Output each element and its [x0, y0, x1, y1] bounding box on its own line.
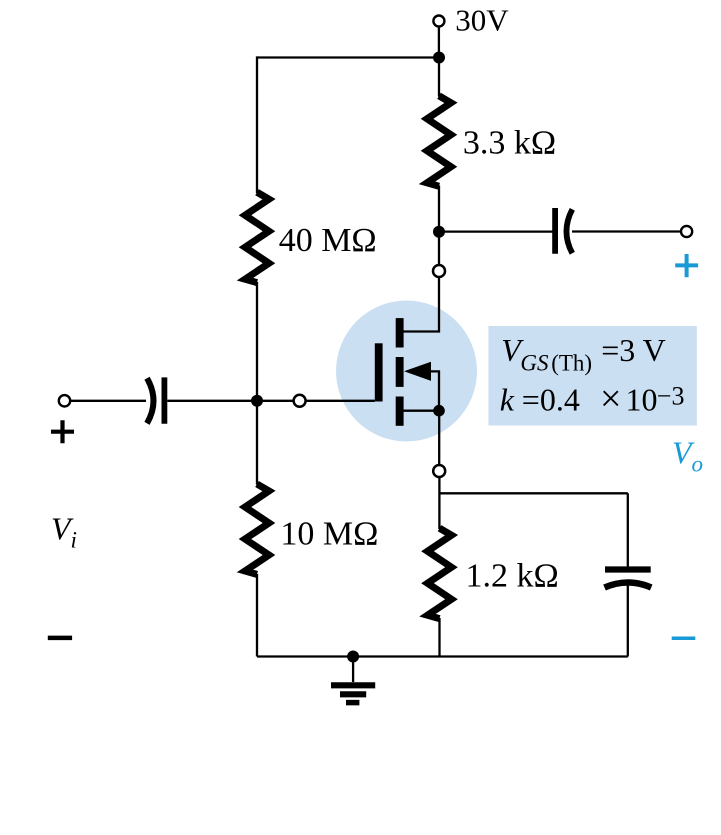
junction ground node [347, 651, 359, 663]
wire left rail bottom [256, 574, 258, 657]
svg-text:k: k [500, 381, 515, 417]
wire gate circle to gate [306, 400, 375, 402]
capacitor CS bypass: straight plate [605, 566, 651, 572]
wire top horizontal [257, 56, 439, 58]
svg-text:1.2 kΩ: 1.2 kΩ [466, 558, 559, 595]
label minus input (black) [48, 636, 72, 641]
wire left rail top [256, 56, 258, 193]
wire source circle down [438, 477, 440, 529]
junction gate node [251, 395, 263, 407]
wire body tie [430, 371, 440, 410]
transistor Q1: source segment [396, 397, 404, 426]
svg-text:(Th): (Th) [551, 351, 592, 376]
terminal input [59, 395, 70, 406]
transistor Q1: substrate arrow [404, 362, 431, 381]
wire bypass rail upper [627, 493, 629, 566]
junction top node [433, 52, 445, 64]
wire left rail middle [256, 282, 258, 485]
capacitor C2 output: straight plate [552, 208, 558, 254]
wire branch to bypass cap [440, 492, 628, 494]
wire cap to output terminal [572, 230, 681, 232]
svg-text:40 MΩ: 40 MΩ [279, 222, 377, 259]
wire node to output cap [439, 230, 553, 232]
terminal gate open circle [294, 395, 306, 407]
ground [352, 657, 354, 683]
junction drain node [433, 226, 445, 238]
resistor 3.3k [427, 96, 451, 186]
transistor Q1: drain segment [396, 318, 404, 347]
svg-text:10 MΩ: 10 MΩ [280, 516, 378, 553]
svg-text:Vo: Vo [672, 435, 703, 477]
transistor Q1: body segment [396, 357, 404, 387]
svg-text:=3 V: =3 V [601, 332, 666, 368]
resistor 10M [245, 484, 269, 574]
svg-text:GS: GS [520, 351, 549, 376]
capacitor C2 output: curved plate [566, 209, 572, 253]
wire node to drain circle [438, 232, 440, 265]
wire bypass rail lower [627, 585, 629, 657]
label minus output (cyan) [672, 636, 696, 640]
wire 30V stub [438, 27, 440, 57]
wire drain rail upper [438, 58, 440, 97]
info box background [488, 326, 697, 426]
terminal source open circle [433, 465, 445, 477]
wire source to circle [438, 411, 440, 465]
label plus input (black) [51, 420, 74, 443]
wire input to cap [70, 400, 146, 402]
svg-text:10: 10 [626, 381, 658, 417]
capacitor C1 input: curved plate [147, 378, 154, 423]
resistor 1.2k [428, 528, 452, 618]
wire drain circle to drain lead [404, 277, 440, 331]
wire bottom horizontal [257, 655, 628, 657]
svg-text:30V: 30V [455, 3, 509, 38]
svg-text:−3: −3 [657, 382, 685, 411]
wire cap to gate junction [167, 400, 293, 402]
svg-text:×: × [600, 378, 621, 420]
MOSFET highlight circle [336, 301, 477, 442]
terminal output [681, 226, 692, 237]
wire resistor to node [438, 186, 440, 233]
terminal 30V [433, 16, 444, 27]
svg-text:Vi: Vi [51, 511, 77, 553]
resistor 40M [245, 192, 269, 282]
wire 1.2k to bottom [438, 618, 440, 657]
label plus output (cyan) [675, 254, 698, 277]
transistor Q1: gate bar [375, 343, 383, 401]
capacitor C1 input: straight plate [161, 377, 167, 423]
wire source lead [404, 410, 440, 412]
svg-text:3.3 kΩ: 3.3 kΩ [463, 124, 556, 161]
svg-text:=0.4: =0.4 [522, 381, 580, 417]
terminal drain open circle [433, 265, 445, 277]
junction source node [433, 405, 445, 417]
capacitor CS bypass: curved plate [605, 583, 652, 588]
